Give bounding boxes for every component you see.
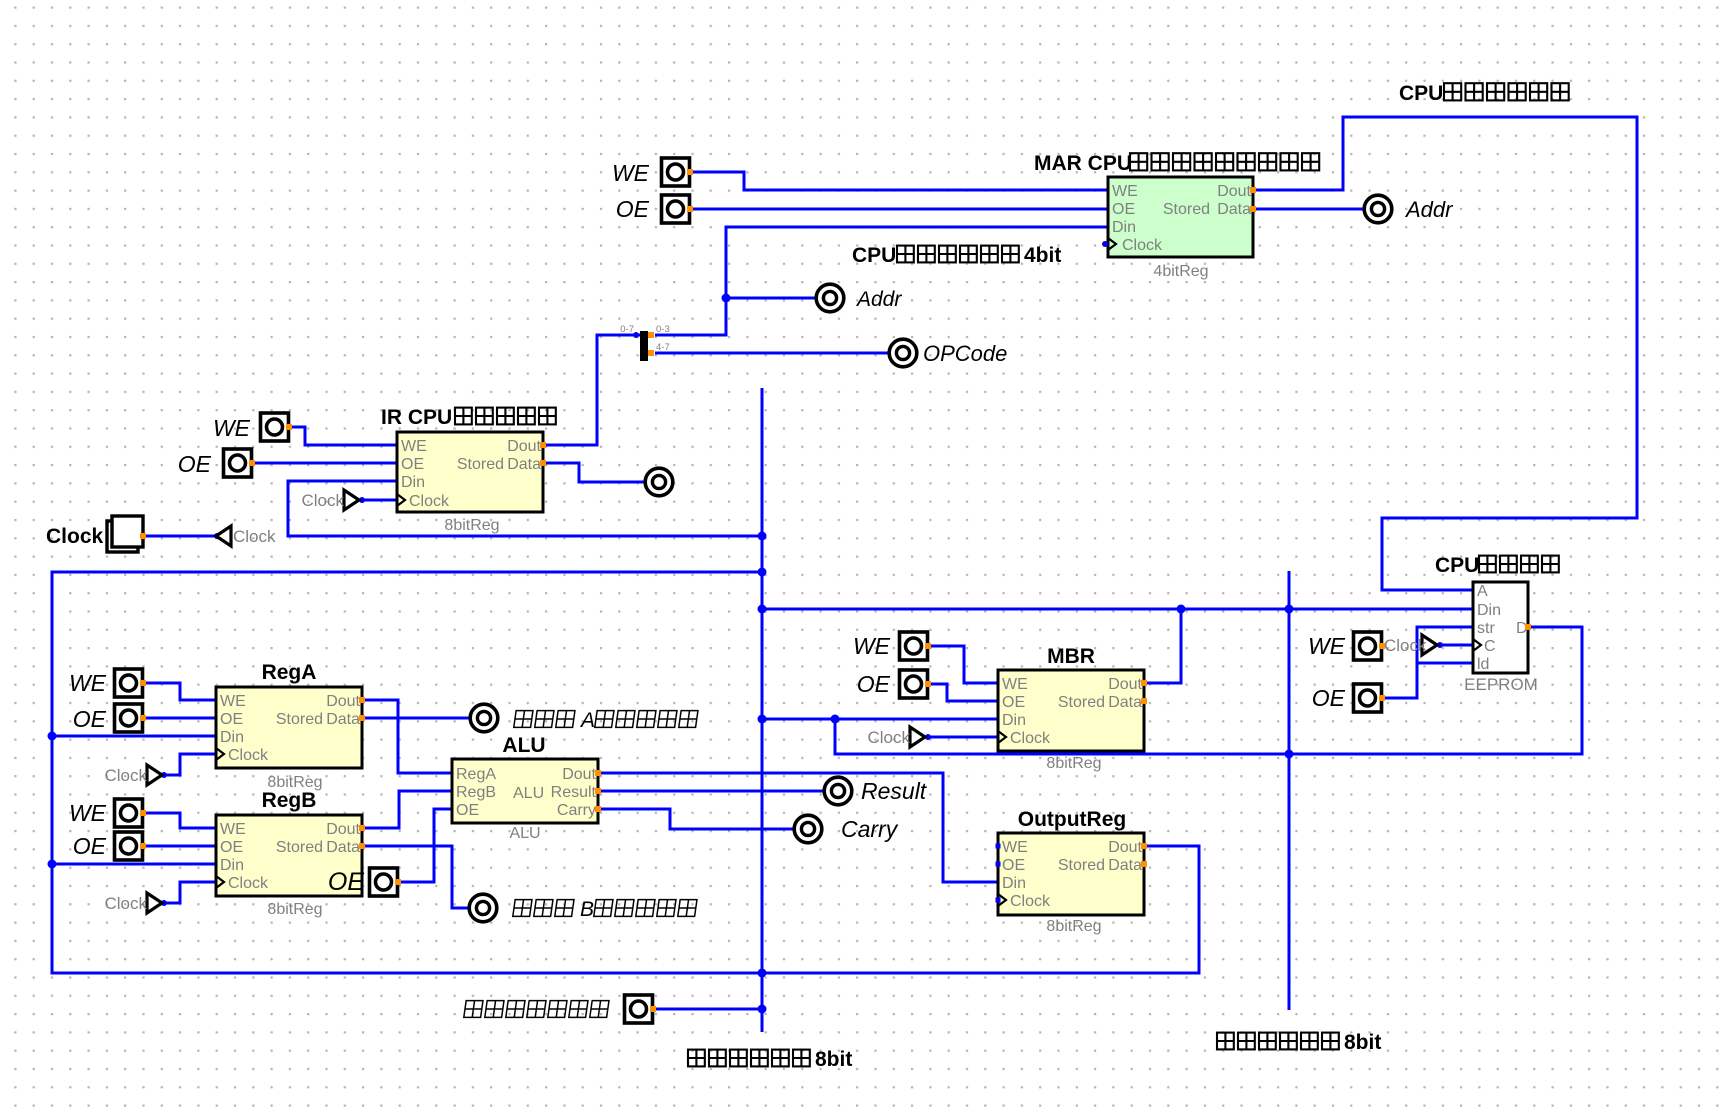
svg-text:8bitReg: 8bitReg bbox=[444, 517, 499, 534]
svg-text:Din: Din bbox=[1002, 712, 1026, 729]
svg-text:8bitReg: 8bitReg bbox=[1046, 755, 1101, 772]
label RegA 8bitReg bbox=[267, 774, 322, 791]
label MAR title bbox=[1034, 152, 1319, 175]
label WE input pin bbox=[853, 633, 891, 659]
label RegB title bbox=[262, 789, 317, 812]
svg-text:4bitReg: 4bitReg bbox=[1153, 263, 1208, 280]
svg-text:WE: WE bbox=[401, 438, 427, 455]
wire MAR Din / internal address bus 0-3 bbox=[655, 227, 1108, 335]
svg-text:MBR: MBR bbox=[1047, 645, 1095, 668]
svg-text:Din: Din bbox=[220, 857, 244, 874]
svg-text:RegA: RegA bbox=[262, 661, 317, 684]
node junction at 1289,609 bbox=[1285, 605, 1294, 614]
svg-text:OE: OE bbox=[456, 802, 479, 819]
svg-text:B: B bbox=[580, 898, 594, 921]
svg-text:Clock: Clock bbox=[1010, 893, 1051, 910]
svg-text:8bit: 8bit bbox=[815, 1048, 852, 1071]
svg-text:4bit: 4bit bbox=[1024, 244, 1061, 267]
label WE input pin bbox=[213, 415, 251, 441]
svg-text:OE: OE bbox=[220, 839, 243, 856]
wire internal data bus vertical bbox=[761, 388, 764, 1032]
svg-text:Dout: Dout bbox=[562, 766, 596, 783]
svg-text:OE: OE bbox=[1002, 694, 1025, 711]
svg-text:WE: WE bbox=[213, 415, 251, 441]
svg-text:ALU: ALU bbox=[513, 785, 544, 802]
svg-text:OE: OE bbox=[1312, 685, 1346, 711]
node junction internal addr bus bbox=[722, 294, 731, 303]
svg-text:OE: OE bbox=[328, 868, 364, 896]
node junction at 1181,609 bbox=[1177, 605, 1186, 614]
svg-text:Din: Din bbox=[1002, 875, 1026, 892]
label OE input pin bbox=[178, 451, 212, 477]
svg-text:OE: OE bbox=[73, 706, 107, 732]
label external Addr bbox=[1404, 197, 1454, 222]
ALU block bbox=[452, 759, 601, 823]
svg-text:Clock: Clock bbox=[409, 493, 450, 510]
svg-text:Clock: Clock bbox=[867, 728, 910, 747]
node junction at 762,973 bbox=[758, 969, 767, 978]
svg-text:WE: WE bbox=[1112, 183, 1138, 200]
svg-text:Data: Data bbox=[1108, 694, 1142, 711]
svg-text:Clock: Clock bbox=[301, 491, 344, 510]
label Clock component bbox=[46, 525, 104, 548]
svg-text:Clock: Clock bbox=[1122, 237, 1163, 254]
input pin RegB OE bbox=[115, 832, 147, 860]
register MBR 8bitReg bbox=[998, 670, 1147, 751]
svg-text:C: C bbox=[1484, 638, 1496, 655]
svg-text:Data: Data bbox=[1217, 201, 1251, 218]
wire MBR Din from internal bus bbox=[762, 718, 998, 721]
wire RegA OE net bbox=[143, 717, 216, 720]
node wire end dot at 217,536 bbox=[214, 533, 220, 539]
wire RegB Clock net bbox=[164, 882, 216, 903]
input pin temp test input bbox=[625, 995, 657, 1023]
svg-text:ALU: ALU bbox=[509, 825, 540, 842]
label WE input pin bbox=[69, 670, 107, 696]
input pin IR WE bbox=[261, 413, 293, 441]
wire internal data bus left loop bbox=[52, 572, 1199, 973]
node junction at 762,572 bbox=[758, 568, 767, 577]
wire ALU Dout to OutputReg Din bbox=[598, 773, 998, 882]
tunnel Clock to IR bbox=[301, 490, 359, 510]
svg-text:OE: OE bbox=[73, 833, 107, 859]
wire MBR Dout riser bbox=[1144, 609, 1181, 683]
svg-text:MAR CPU: MAR CPU bbox=[1034, 152, 1132, 175]
node junction at 762,536 bbox=[758, 532, 767, 541]
label external data bus 8bit bbox=[1217, 1031, 1381, 1054]
svg-text:Dout: Dout bbox=[507, 438, 541, 455]
svg-text:0-3: 0-3 bbox=[656, 324, 670, 335]
svg-text:OE: OE bbox=[616, 196, 650, 222]
wire IR Din from internal data bus bbox=[288, 481, 762, 536]
label RegA test output (Chinese) bbox=[514, 709, 698, 732]
label IR 8bitReg bbox=[444, 517, 499, 534]
output pin RegA test output bbox=[470, 704, 498, 732]
wire IR Clock stub bbox=[358, 499, 397, 502]
label Result bbox=[861, 778, 928, 804]
wire EEPROM ld stub bbox=[1417, 662, 1473, 665]
svg-text:Stored: Stored bbox=[276, 711, 323, 728]
output pin IR data out bbox=[645, 468, 673, 496]
svg-text:OutputReg: OutputReg bbox=[1018, 808, 1126, 831]
tunnel Clock to RegB bbox=[104, 893, 162, 913]
label CPU external memory title bbox=[1435, 554, 1559, 577]
label ALU sublabel bbox=[509, 825, 540, 842]
output pin internal Addr bbox=[816, 284, 844, 312]
label MBR title bbox=[1047, 645, 1095, 668]
wire RegB WE net bbox=[143, 813, 216, 828]
label CPU internal address bus 4bit bbox=[852, 244, 1061, 267]
svg-text:EEPROM: EEPROM bbox=[1464, 675, 1538, 694]
svg-text:Result: Result bbox=[551, 784, 597, 801]
node wire end dot at 164,775 bbox=[161, 772, 167, 778]
output pin Result bbox=[824, 777, 852, 805]
input pin ALU OE bbox=[370, 868, 402, 896]
label Carry bbox=[841, 816, 899, 842]
input pin EEPROM WE bbox=[1354, 632, 1386, 660]
svg-text:8bit: 8bit bbox=[1344, 1031, 1381, 1054]
label temp test input (Chinese) bbox=[464, 1001, 609, 1018]
svg-text:WE: WE bbox=[69, 670, 107, 696]
wire temp test input to bus bbox=[653, 1008, 762, 1011]
register IR 8bitReg bbox=[397, 432, 546, 512]
svg-text:CPU: CPU bbox=[852, 244, 896, 267]
wire external data bus vertical bbox=[1288, 571, 1291, 1010]
svg-text:Result: Result bbox=[861, 778, 928, 804]
svg-text:Dout: Dout bbox=[326, 693, 360, 710]
label WE input pin bbox=[69, 800, 107, 826]
wire MAR OE net bbox=[690, 208, 1108, 211]
svg-text:IR CPU: IR CPU bbox=[381, 406, 452, 429]
svg-text:WE: WE bbox=[1002, 839, 1028, 856]
node wire end dot at 636,335 bbox=[633, 332, 639, 338]
svg-text:Data: Data bbox=[326, 711, 360, 728]
label OE input pin bbox=[857, 671, 891, 697]
svg-text:WE: WE bbox=[220, 693, 246, 710]
node junction at 1289,754 bbox=[1285, 750, 1294, 759]
wire branch to internal Addr pin bbox=[726, 297, 817, 300]
label OutputReg 8bitReg bbox=[1046, 918, 1101, 935]
wire MBR WE net bbox=[928, 646, 998, 683]
wire splitter 4-7 to OPCode bbox=[655, 352, 890, 355]
svg-text:Dout: Dout bbox=[1108, 839, 1142, 856]
register RegA 8bitReg bbox=[216, 687, 365, 768]
svg-text:Din: Din bbox=[401, 474, 425, 491]
svg-text:Din: Din bbox=[1112, 219, 1136, 236]
svg-text:4-7: 4-7 bbox=[656, 342, 670, 353]
wire EEPROM OE to str/ld bbox=[1382, 627, 1473, 698]
input pin RegA WE bbox=[115, 669, 147, 697]
register RegB 8bitReg bbox=[216, 815, 365, 896]
wire IR OE net bbox=[252, 462, 397, 465]
label RegA title bbox=[262, 661, 317, 684]
svg-text:OE: OE bbox=[401, 456, 424, 473]
wire Clock to tunnel bbox=[142, 535, 216, 538]
output pin RegB test output bbox=[469, 894, 497, 922]
label WE input pin bbox=[1308, 633, 1346, 659]
node junction at 835,719 bbox=[831, 715, 840, 724]
tunnel Clock to RegA bbox=[104, 765, 162, 785]
svg-text:Data: Data bbox=[507, 456, 541, 473]
label WE input pin bbox=[612, 160, 650, 186]
svg-text:Stored: Stored bbox=[457, 456, 504, 473]
input pin MAR WE bbox=[662, 158, 694, 186]
wire RegA Dout to ALU RegA bbox=[362, 700, 452, 773]
svg-text:Dout: Dout bbox=[1217, 183, 1251, 200]
input pin MBR OE bbox=[900, 670, 932, 698]
input pin IR OE bbox=[224, 449, 256, 477]
svg-text:OE: OE bbox=[1112, 201, 1135, 218]
svg-text:Dout: Dout bbox=[1108, 676, 1142, 693]
svg-text:Din: Din bbox=[220, 729, 244, 746]
svg-text:0-7: 0-7 bbox=[620, 324, 634, 335]
svg-text:Clock: Clock bbox=[104, 894, 147, 913]
label OE input pin bbox=[73, 706, 107, 732]
svg-text:Clock: Clock bbox=[1010, 730, 1051, 747]
wire ALU Carry to pin bbox=[598, 809, 795, 829]
svg-text:OE: OE bbox=[178, 451, 212, 477]
label internal Addr bbox=[855, 288, 902, 311]
EEPROM CPU external memory bbox=[1473, 582, 1531, 673]
tunnel Clock to EEPROM C bbox=[1384, 635, 1437, 655]
wire RegA Clock net bbox=[164, 754, 216, 775]
svg-text:Dout: Dout bbox=[326, 821, 360, 838]
node wire end dot at 362,500 bbox=[359, 497, 365, 503]
splitter 8bit to 0-3 / 4-7 bbox=[620, 324, 669, 361]
label MBR 8bitReg bbox=[1046, 755, 1101, 772]
node wire end dot at 1440,645 bbox=[1437, 642, 1443, 648]
node junction at 52,864 bbox=[48, 860, 57, 869]
label OE input pin bbox=[1312, 685, 1346, 711]
wire EEPROM D loop to MBR Din net bbox=[835, 627, 1582, 754]
svg-text:Din: Din bbox=[1477, 602, 1501, 619]
svg-text:Addr: Addr bbox=[855, 288, 902, 311]
svg-text:Clock: Clock bbox=[46, 525, 104, 548]
register MAR 4bitReg bbox=[1102, 177, 1256, 257]
label internal data bus 8bit bbox=[688, 1048, 852, 1071]
svg-text:Stored: Stored bbox=[276, 839, 323, 856]
wire RegA WE net bbox=[143, 683, 216, 700]
svg-text:CPU: CPU bbox=[1435, 554, 1479, 577]
svg-text:Clock: Clock bbox=[233, 527, 276, 546]
svg-text:A: A bbox=[1477, 583, 1488, 600]
wire MAR WE net bbox=[690, 172, 1108, 190]
register OutputReg 8bitReg bbox=[996, 833, 1148, 915]
wire RegB Dout to ALU RegB bbox=[362, 791, 452, 828]
label ALU title bbox=[502, 734, 545, 757]
wire IR WE net bbox=[289, 427, 397, 445]
wire RegB Data to test output bbox=[362, 846, 470, 908]
node junction at 762,609 bbox=[758, 605, 767, 614]
svg-text:OE: OE bbox=[1002, 857, 1025, 874]
wire RegA Data to test output bbox=[362, 717, 471, 720]
svg-text:OE: OE bbox=[857, 671, 891, 697]
wire ALU OE net bbox=[398, 809, 452, 882]
label IR title bbox=[381, 406, 556, 429]
svg-text:ALU: ALU bbox=[502, 734, 545, 757]
wire IR Dout to splitter input bbox=[543, 335, 640, 445]
wire internal bus to EEPROM Din bbox=[762, 608, 1473, 611]
svg-text:A: A bbox=[579, 709, 595, 732]
svg-text:Clock: Clock bbox=[104, 766, 147, 785]
svg-text:RegB: RegB bbox=[262, 789, 317, 812]
wire RegB OE net bbox=[143, 845, 216, 848]
svg-text:RegA: RegA bbox=[456, 766, 496, 783]
svg-text:Stored: Stored bbox=[1058, 857, 1105, 874]
svg-text:str: str bbox=[1477, 620, 1495, 637]
svg-text:Clock: Clock bbox=[228, 747, 269, 764]
svg-text:8bitReg: 8bitReg bbox=[267, 901, 322, 918]
svg-text:Addr: Addr bbox=[1404, 197, 1454, 222]
input pin EEPROM OE bbox=[1354, 684, 1386, 712]
output pin OPCode bbox=[889, 339, 917, 367]
svg-text:WE: WE bbox=[1002, 676, 1028, 693]
svg-text:Carry: Carry bbox=[557, 802, 596, 819]
wire MBR Clock stub bbox=[925, 736, 998, 739]
label CPU external address bus bbox=[1399, 82, 1569, 105]
label OE for ALU bbox=[328, 868, 364, 896]
svg-text:CPU: CPU bbox=[1399, 82, 1443, 105]
input pin RegB WE bbox=[115, 799, 147, 827]
svg-text:Clock: Clock bbox=[228, 875, 269, 892]
label RegB 8bitReg bbox=[267, 901, 322, 918]
label OPCode bbox=[923, 341, 1007, 366]
wire RegB Din bbox=[52, 863, 216, 866]
svg-text:Stored: Stored bbox=[1058, 694, 1105, 711]
svg-text:OE: OE bbox=[220, 711, 243, 728]
label OutputReg title bbox=[1018, 808, 1126, 831]
svg-text:WE: WE bbox=[1308, 633, 1346, 659]
node wire end dot at 164,903 bbox=[161, 900, 167, 906]
input pin RegA OE bbox=[115, 704, 147, 732]
input pin MAR OE bbox=[662, 195, 694, 223]
svg-text:Data: Data bbox=[326, 839, 360, 856]
wire IR Data to output pin bbox=[543, 463, 646, 482]
svg-text:Clock: Clock bbox=[1384, 636, 1427, 655]
label 4bitReg bbox=[1153, 263, 1208, 280]
label EEPROM bbox=[1464, 675, 1538, 694]
wire RegA Din bbox=[52, 735, 216, 738]
output pin Carry bbox=[794, 815, 822, 843]
svg-text:OPCode: OPCode bbox=[923, 341, 1007, 366]
input pin MBR WE bbox=[900, 632, 932, 660]
svg-text:Data: Data bbox=[1108, 857, 1142, 874]
svg-text:RegB: RegB bbox=[456, 784, 496, 801]
label RegB test output (Chinese) bbox=[513, 898, 697, 921]
node junction at 762,719 bbox=[758, 715, 767, 724]
svg-text:WE: WE bbox=[612, 160, 650, 186]
node wire end dot at 928,737 bbox=[925, 734, 931, 740]
label OE input pin bbox=[73, 833, 107, 859]
wire CPU external address bus loop bbox=[1253, 117, 1637, 590]
svg-text:WE: WE bbox=[220, 821, 246, 838]
svg-text:WE: WE bbox=[69, 800, 107, 826]
label OE input pin bbox=[616, 196, 650, 222]
clock generator component bbox=[107, 516, 146, 552]
wire EEPROM C stub bbox=[1437, 644, 1473, 647]
wire ALU Result to pin bbox=[598, 790, 825, 793]
wire MBR OE net bbox=[928, 684, 998, 701]
svg-text:WE: WE bbox=[853, 633, 891, 659]
wire MAR Data to external Addr pin bbox=[1253, 208, 1365, 211]
svg-text:Stored: Stored bbox=[1163, 201, 1210, 218]
output pin external Addr bbox=[1364, 195, 1392, 223]
node junction at 762,1009 bbox=[758, 1005, 767, 1014]
node junction at 52,736 bbox=[48, 732, 57, 741]
tunnel Clock to MBR bbox=[867, 727, 925, 747]
svg-text:Carry: Carry bbox=[841, 816, 899, 842]
tunnel Clock (from clock source, pointing left) bbox=[216, 526, 276, 546]
svg-text:ld: ld bbox=[1477, 656, 1489, 673]
svg-text:8bitReg: 8bitReg bbox=[1046, 918, 1101, 935]
